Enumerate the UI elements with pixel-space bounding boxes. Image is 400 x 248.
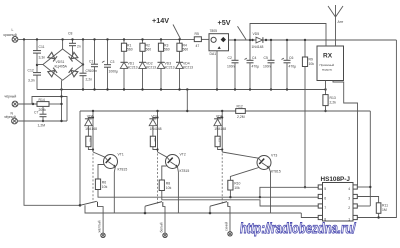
contact K1.1 — [79, 201, 103, 233]
node: L rail tap — [23, 38, 25, 40]
svg-text:чёрный: чёрный — [4, 115, 16, 119]
diode VD6 — [85, 115, 97, 137]
wire: contact common riser — [79, 111, 81, 205]
pin 8 — [318, 215, 322, 219]
pin 4 — [353, 185, 357, 189]
svg-text:красный: красный — [4, 33, 17, 37]
relay coil K3 — [215, 136, 222, 149]
wire: R8 to pin6 — [162, 191, 318, 207]
svg-text:7: 7 — [324, 206, 326, 210]
svg-text:200k: 200k — [39, 108, 47, 112]
svg-text:100n: 100n — [90, 69, 98, 73]
wire: DA1 ground lead — [216, 51, 218, 90]
svg-text:+5V: +5V — [218, 18, 231, 27]
relay K3 mechanical link — [221, 154, 223, 204]
transistor VT2 — [158, 152, 190, 173]
wire: R14 to bridge minus — [49, 103, 62, 105]
svg-text:R12: R12 — [237, 105, 243, 109]
wire: RX data output to decoder — [333, 81, 358, 186]
decoder IC DD1 HS108P-J — [318, 176, 357, 222]
svg-text:10k: 10k — [166, 186, 172, 190]
contact K3.1 — [209, 202, 230, 232]
svg-text:C4: C4 — [252, 56, 256, 60]
wire: VT1 base lead — [98, 165, 104, 180]
wire: VT3 base lead — [230, 168, 258, 181]
svg-text:C6: C6 — [289, 56, 293, 60]
svg-text:КС213: КС213 — [146, 66, 156, 70]
capacitor C5 — [263, 39, 275, 90]
svg-text:2,2k: 2,2k — [330, 101, 337, 105]
svg-text:C2: C2 — [228, 56, 232, 60]
svg-text:1N4148: 1N4148 — [252, 45, 264, 49]
svg-text:HS108P-J: HS108P-J — [321, 176, 351, 183]
svg-text:K3: K3 — [218, 138, 222, 142]
svg-text:RX: RX — [323, 53, 333, 60]
wire: VT3 emitter — [269, 168, 271, 214]
resistor R14 — [37, 98, 49, 112]
svg-text:КТ815: КТ815 — [180, 169, 190, 173]
svg-text:10k: 10k — [309, 62, 315, 66]
svg-text:100n: 100n — [263, 65, 271, 69]
relay coil K1 — [86, 136, 93, 149]
svg-text:2n: 2n — [77, 45, 81, 49]
svg-text:560: 560 — [146, 48, 152, 52]
zener diode VD3 — [157, 62, 174, 90]
capacitor C9 — [80, 38, 93, 89]
terminal X3 (чёрный) — [4, 112, 17, 124]
svg-text:Ант: Ант — [338, 20, 344, 24]
svg-text:R14: R14 — [39, 98, 45, 102]
wire: contact common jog — [85, 205, 301, 213]
bridge diode bottom-right — [69, 68, 78, 77]
svg-text:http://radiobezdna.ru/: http://radiobezdna.ru/ — [239, 219, 357, 236]
wire: VT2 base lead — [162, 166, 167, 180]
svg-text:2,2n: 2,2n — [86, 78, 93, 82]
wire: VT1 emitter — [114, 167, 115, 214]
bridge diode bottom-left — [48, 68, 57, 77]
diode VD5 — [251, 32, 267, 49]
svg-text:2: 2 — [348, 206, 350, 210]
svg-text:470µ: 470µ — [289, 65, 297, 69]
capacitor C8 — [68, 32, 81, 57]
svg-text:560: 560 — [164, 48, 170, 52]
wire: bypass loop over R14 — [32, 97, 67, 122]
svg-text:2,2M: 2,2M — [237, 115, 245, 119]
svg-text:C7: C7 — [34, 111, 38, 115]
relay K1 mechanical link — [92, 154, 94, 203]
wire: stage1 drop — [92, 111, 94, 152]
wire: ground rail — [37, 89, 326, 91]
svg-text:6: 6 — [324, 197, 326, 201]
svg-text:модуль: модуль — [322, 68, 333, 72]
wire: stage3 drop — [221, 111, 223, 152]
zener diode VD2 — [139, 62, 156, 90]
capacitor C12 — [28, 64, 42, 90]
pin 2 — [353, 204, 357, 208]
node X3 riser — [60, 95, 62, 97]
svg-text:1000µ: 1000µ — [109, 70, 119, 74]
svg-text:470µ: 470µ — [252, 65, 260, 69]
RX receiver module — [317, 46, 344, 81]
svg-text:КТ815: КТ815 — [271, 170, 281, 174]
wire: stage supply rail y111 — [80, 110, 236, 112]
wire: R10 to pin5 — [229, 190, 231, 197]
node on X2 line — [32, 103, 34, 105]
diode VD7 — [149, 115, 161, 137]
capacitor C2 — [227, 39, 239, 90]
pin 3 — [353, 194, 357, 198]
svg-text:VT3: VT3 — [271, 154, 277, 158]
wire: pin4 to RX data — [369, 111, 371, 206]
relay K2 mechanical link — [157, 154, 159, 204]
wire: right edge down — [357, 40, 396, 218]
zener diode VD1 — [120, 62, 137, 90]
svg-text:жёлтый: жёлтый — [97, 220, 101, 232]
relay coil K2 — [150, 136, 157, 149]
svg-text:C5: C5 — [264, 56, 268, 60]
terminal X2 (чёрный) — [5, 95, 18, 107]
svg-text:R13: R13 — [330, 96, 336, 100]
wire: VT2 emitter — [177, 167, 178, 214]
svg-text:1,2M: 1,2M — [38, 124, 46, 128]
capacitor C4 (electrolytic) — [245, 39, 260, 90]
terminal X1 (красный, L input) — [4, 28, 18, 42]
svg-text:КТ815: КТ815 — [118, 168, 128, 172]
svg-text:1N4148: 1N4148 — [214, 127, 226, 131]
wire: pin3 to R11 — [357, 197, 378, 203]
svg-text:R11: R11 — [382, 204, 388, 208]
terminal X4 (жёлтый) — [97, 220, 105, 237]
terminal X5 (белый) — [159, 222, 167, 237]
svg-text:1M: 1M — [382, 208, 387, 212]
zener diode VD4 — [176, 62, 193, 90]
resistor R4 — [177, 38, 188, 62]
svg-text:DA1: DA1 — [210, 52, 217, 56]
voltage regulator DA1 7805 — [209, 29, 229, 56]
resistor R11 — [376, 203, 388, 219]
svg-text:R8: R8 — [166, 182, 170, 186]
wire: RX supply loop — [250, 24, 326, 47]
svg-text:VD5: VD5 — [253, 32, 260, 36]
svg-text:C3: C3 — [110, 60, 114, 64]
wire: +14V top rail — [18, 38, 194, 40]
pin 7 — [318, 204, 322, 208]
svg-text:синий: синий — [224, 222, 228, 231]
svg-text:100n: 100n — [227, 65, 235, 69]
svg-text:1N4148: 1N4148 — [150, 127, 162, 131]
svg-text:3,3n: 3,3n — [39, 56, 46, 60]
svg-text:C1: C1 — [89, 60, 93, 64]
svg-text:3,3n: 3,3n — [28, 79, 35, 83]
svg-text:чёрный: чёрный — [5, 95, 17, 99]
resistor R12 — [236, 105, 246, 120]
svg-text:4: 4 — [348, 187, 350, 191]
node dots on ground rail — [60, 88, 326, 90]
wire: ground to stage rail link — [186, 90, 188, 112]
svg-text:КС213: КС213 — [183, 66, 193, 70]
transistor VT3 — [222, 152, 281, 174]
pin 5 — [318, 185, 322, 189]
svg-text:7805: 7805 — [210, 29, 218, 33]
wire: branch to pin5 — [260, 187, 318, 197]
svg-text:белый: белый — [159, 222, 163, 232]
label +14V — [152, 16, 181, 39]
svg-text:КЦ405А: КЦ405А — [55, 65, 68, 69]
wire: common rail to pin8 — [301, 213, 318, 218]
wire: rail R5 to DA1 — [201, 38, 209, 40]
antenna — [328, 5, 344, 46]
wire: +5V rail right part — [263, 39, 396, 41]
label +5V — [218, 18, 247, 40]
diode VD8 — [214, 115, 226, 137]
svg-text:VT2: VT2 — [180, 153, 186, 157]
svg-text:R6: R6 — [102, 181, 106, 185]
wire: R6 to pin7 — [98, 190, 318, 198]
svg-text:5: 5 — [324, 187, 326, 191]
wire: L common down left side — [24, 39, 80, 205]
capacitor C7 — [34, 107, 47, 128]
wire: +5V rail — [229, 39, 256, 41]
svg-text:560: 560 — [183, 48, 189, 52]
svg-text:3: 3 — [348, 197, 350, 201]
bridge diode top-left — [48, 52, 57, 61]
svg-text:VT1: VT1 — [118, 153, 124, 157]
bridge rectifier VDS1 — [37, 38, 84, 80]
svg-text:10k: 10k — [102, 185, 108, 189]
pin 6 — [318, 194, 322, 198]
svg-text:КС213: КС213 — [128, 66, 138, 70]
node bridge minus / X2 line — [60, 103, 62, 105]
resistor R1 — [121, 38, 132, 62]
resistor R10 — [228, 180, 241, 190]
svg-text:КС213: КС213 — [165, 66, 175, 70]
svg-text:R10: R10 — [234, 182, 240, 186]
svg-text:47: 47 — [196, 44, 200, 48]
svg-text:+14V: +14V — [152, 16, 169, 25]
resistor R6 — [95, 179, 107, 190]
terminal X6 (синий) — [224, 222, 232, 236]
svg-text:K2: K2 — [153, 138, 157, 142]
svg-text:C12: C12 — [28, 69, 34, 73]
resistor R13 — [323, 95, 336, 113]
resistor R3 — [158, 38, 169, 62]
svg-text:10k: 10k — [234, 186, 240, 190]
svg-text:R5: R5 — [195, 32, 199, 36]
resistor R8 — [159, 180, 171, 191]
capacitor C1 — [89, 38, 98, 89]
wire: X2 line — [18, 103, 37, 105]
contact K2.1 — [144, 202, 165, 234]
resistor R5 — [194, 32, 201, 48]
svg-text:R9: R9 — [309, 58, 313, 62]
svg-text:Приёмный: Приёмный — [320, 63, 335, 67]
resistor R2 — [140, 38, 151, 62]
svg-text:C11: C11 — [39, 45, 45, 49]
capacitor C11 — [33, 38, 45, 65]
svg-text:L: L — [12, 28, 14, 32]
resistor R9 — [302, 39, 314, 189]
capacitor C3 (electrolytic) — [102, 38, 118, 89]
wire: X3 line — [18, 120, 67, 122]
svg-text:1N4148: 1N4148 — [85, 127, 97, 131]
svg-text:K1: K1 — [89, 138, 93, 142]
bridge diode top-right — [69, 52, 78, 61]
transistor VT1 — [93, 152, 127, 172]
wire: RX gnd lead — [325, 81, 327, 95]
wire: bridge minus drop — [61, 80, 63, 121]
node stage rail — [186, 110, 188, 112]
svg-text:C8: C8 — [68, 32, 72, 36]
capacitor C6 (electrolytic) — [282, 39, 297, 90]
wire: pin2 riser — [357, 205, 370, 207]
svg-text:560: 560 — [127, 48, 133, 52]
pin 1 — [353, 215, 357, 219]
wire: stage2 drop — [157, 111, 159, 152]
